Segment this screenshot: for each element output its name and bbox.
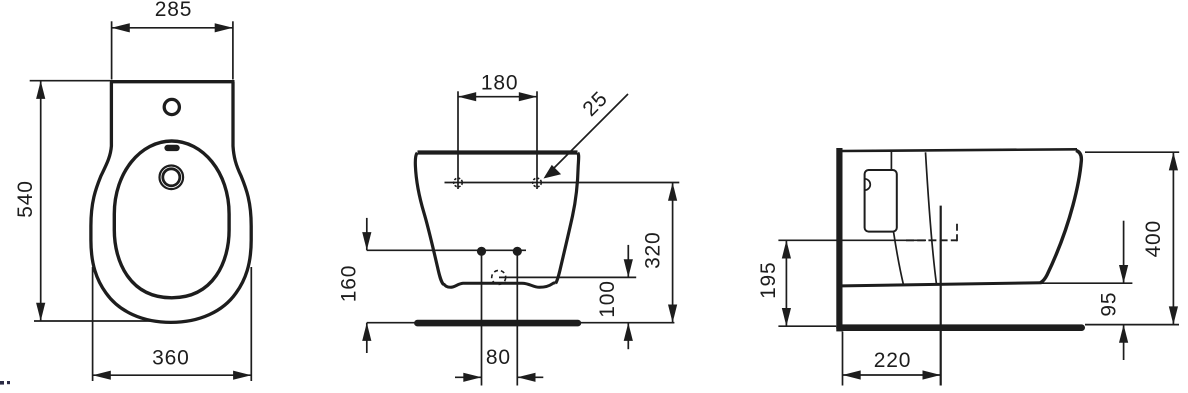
bolt left extension <box>481 251 483 385</box>
dim 95 extension top <box>1041 282 1132 284</box>
svg-text:320: 320 <box>642 231 665 268</box>
leader 25 arrowhead <box>544 165 562 179</box>
dim 220 arrow right <box>923 370 941 379</box>
leader line 25 <box>546 94 628 176</box>
dim 220 arrow left <box>843 370 861 379</box>
front right side <box>556 153 579 283</box>
dim 320 arrow top <box>668 183 677 201</box>
dim 360 dimension line <box>93 374 252 376</box>
dim 100 arrow top <box>624 259 633 277</box>
dim 195 arrow bottom <box>782 308 791 326</box>
side bottom edge <box>843 283 1042 286</box>
bidet plan inner basin <box>114 141 229 298</box>
hidden trap line <box>906 239 957 241</box>
dim 400 arrow bottom <box>1169 306 1178 324</box>
drain level line <box>499 276 636 278</box>
dim 400 extension top <box>1085 151 1179 153</box>
svg-text:100: 100 <box>596 280 619 317</box>
dim 360 extension line right <box>250 267 252 381</box>
drain outer ring <box>160 166 184 190</box>
dim 100 dimension line <box>627 245 629 278</box>
overflow slot <box>164 145 179 151</box>
dim 195 dimension line <box>785 240 787 326</box>
dim 220 dimension line <box>843 374 941 376</box>
dim 180 dimension line <box>458 96 537 98</box>
dim 320 dimension line <box>672 183 674 323</box>
hidden drain circle <box>492 270 506 284</box>
bowl rear interior line <box>894 232 904 285</box>
dim 80 arrow left <box>463 373 481 382</box>
dim 180 arrow left <box>458 92 476 101</box>
dim 80 dimension line right <box>517 376 543 378</box>
inlet vertical line <box>890 152 892 171</box>
dim 360 extension line left <box>92 267 94 381</box>
side top edge <box>843 149 1078 151</box>
dim 540 extension line bottom <box>34 320 152 322</box>
dim 95 arrow bottom <box>1119 325 1128 343</box>
svg-text:95: 95 <box>1097 292 1120 317</box>
dim 160 dimension line <box>366 218 368 250</box>
bidet plan top edge <box>110 80 235 83</box>
dim 540 extension line top <box>30 80 110 82</box>
svg-text:400: 400 <box>1142 220 1165 257</box>
svg-text:80: 80 <box>486 346 511 369</box>
dim 160 arrow top <box>362 232 371 250</box>
front bottom edge <box>444 283 556 287</box>
dim 80 arrow right <box>517 373 535 382</box>
floor reference line <box>367 322 675 324</box>
dim 95 arrow top <box>1119 265 1128 283</box>
svg-text:195: 195 <box>757 261 780 298</box>
fixing hole left extension <box>457 91 459 189</box>
svg-text:360: 360 <box>152 347 189 370</box>
dim 195 extension top <box>778 239 926 241</box>
fixing hole left <box>454 178 463 187</box>
bolt dot left <box>477 247 486 256</box>
bidet plan outer outline <box>91 82 251 323</box>
dim 180 arrow right <box>519 92 537 101</box>
bolt dot right <box>513 247 522 256</box>
box notch <box>865 179 871 190</box>
dim 285 extension line left <box>111 21 113 79</box>
svg-text:540: 540 <box>14 180 37 217</box>
trap vertical line <box>940 206 942 386</box>
dim 540 dimension line <box>40 81 42 321</box>
dim 220 extension left <box>842 331 844 385</box>
dim 80 dimension line left <box>455 376 482 378</box>
side right profile <box>1041 150 1082 282</box>
fixing hole right <box>533 178 542 187</box>
dim 360 arrow right <box>233 371 251 380</box>
floor bar front view <box>417 320 578 327</box>
dim 195 extension bottom <box>778 325 836 327</box>
cistern box <box>865 170 897 232</box>
page corner dots <box>0 381 10 385</box>
dim 320 arrow bottom <box>668 305 677 323</box>
dim 360 arrow left <box>93 371 111 380</box>
bowl front interior line <box>926 152 937 284</box>
floor bar side view <box>840 324 1082 331</box>
dim 400 arrow top <box>1169 152 1178 170</box>
front top edge <box>418 150 578 154</box>
svg-text:285: 285 <box>155 0 192 21</box>
hidden trap line vertical <box>956 223 958 242</box>
fixing holes centre line <box>445 182 680 184</box>
dim 285 arrow right <box>215 23 233 32</box>
svg-text:180: 180 <box>481 72 518 95</box>
dim 400 dimension line <box>1172 152 1174 324</box>
faucet hole <box>164 99 179 114</box>
wall line <box>836 148 842 331</box>
dim 160 arrow bottom <box>362 323 371 341</box>
front left side <box>415 153 443 285</box>
drain inner ring <box>163 169 180 186</box>
bolt right extension <box>516 251 518 385</box>
svg-text:220: 220 <box>874 349 911 372</box>
dim 540 arrow top <box>36 81 45 99</box>
svg-text:160: 160 <box>338 265 361 302</box>
dim 195 arrow top <box>782 240 791 258</box>
dim 285 dimension line <box>112 27 233 29</box>
dim 285 arrow left <box>112 23 130 32</box>
dim 95 dimension line <box>1123 221 1125 284</box>
dim 540 arrow bottom <box>36 303 45 321</box>
dim 285 extension line right <box>232 21 234 79</box>
dim 100 arrow bottom <box>624 323 633 341</box>
fixing hole right extension <box>536 91 538 189</box>
bolt dots centre line <box>367 249 526 251</box>
floor reference line right <box>1085 324 1179 326</box>
